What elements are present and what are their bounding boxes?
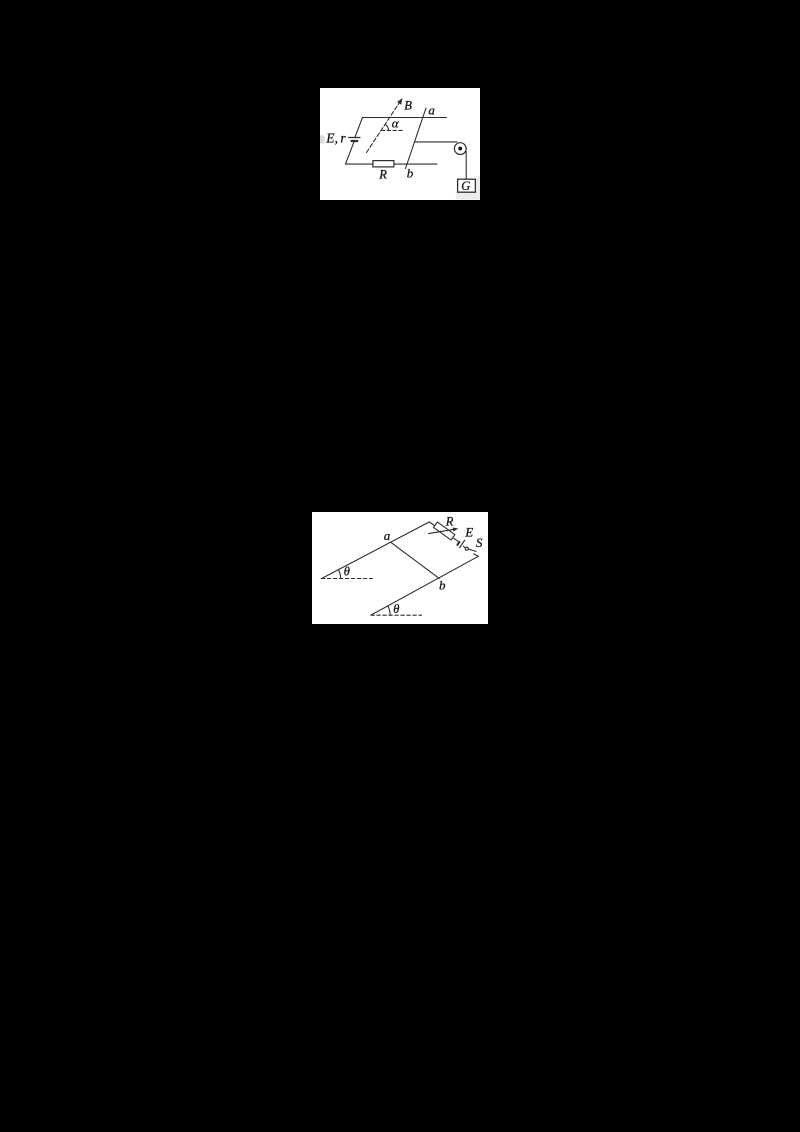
svg-text:r: r <box>340 131 346 146</box>
svg-text:b: b <box>439 578 446 593</box>
svg-text:,: , <box>335 131 338 146</box>
svg-text:θ: θ <box>393 602 399 616</box>
svg-text:G: G <box>461 179 470 193</box>
svg-text:α: α <box>392 115 400 130</box>
svg-text:θ: θ <box>344 564 350 578</box>
svg-text:E: E <box>464 525 473 540</box>
svg-text:B: B <box>404 99 412 113</box>
svg-text:a: a <box>384 528 391 543</box>
svg-text:R: R <box>445 514 454 528</box>
svg-text:R: R <box>378 168 387 182</box>
svg-text:a: a <box>428 103 435 118</box>
svg-text:b: b <box>407 165 414 180</box>
svg-text:S: S <box>476 535 483 550</box>
